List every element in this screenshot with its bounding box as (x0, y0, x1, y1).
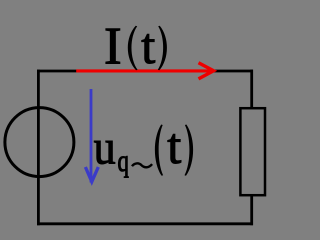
svg-text:u: u (94, 120, 116, 175)
label u_q~(t): tilde (132, 163, 152, 167)
svg-text:q: q (118, 144, 129, 178)
current arrow I(t) head (199, 63, 214, 79)
label u_q~(t): open paren (155, 125, 163, 176)
svg-text:t: t (141, 18, 155, 74)
voltage arrow u_q(t) head (85, 167, 98, 182)
voltage arrow u_q(t) shaft (90, 89, 93, 183)
wire right upper segment (250, 70, 253, 109)
label u_q~(t): close paren (185, 125, 194, 176)
voltage source circle (5, 108, 74, 177)
wire top (37, 70, 253, 73)
svg-text:I: I (104, 17, 122, 75)
svg-text:t: t (167, 118, 181, 174)
label I(t): close paren (158, 26, 167, 71)
label I(t): open paren (128, 26, 138, 71)
current arrow I(t) shaft (76, 69, 213, 72)
wire left (37, 70, 40, 226)
wire right lower segment (250, 194, 253, 225)
wire bottom (37, 222, 253, 225)
resistor rectangle (240, 108, 265, 195)
